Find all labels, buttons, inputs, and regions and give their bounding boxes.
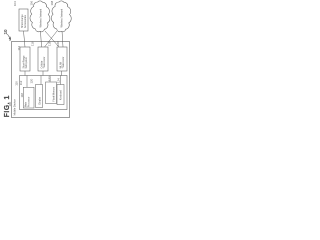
patent figure drawn in landscape coords (120x72), rotated 90deg CCW into portrait canvas xyxy=(3,0,71,117)
wire G to bus xyxy=(60,76,62,85)
svg-text:Wireless Network: Wireless Network xyxy=(40,8,43,27)
svg-text:104: 104 xyxy=(13,1,17,6)
component box F (memory) xyxy=(46,82,57,104)
svg-text:Wireless Network: Wireless Network xyxy=(61,8,64,27)
svg-text:108: 108 xyxy=(50,0,54,5)
svg-text:122: 122 xyxy=(48,76,52,81)
svg-text:118: 118 xyxy=(20,93,24,98)
inner module box xyxy=(20,76,68,110)
svg-text:10: 10 xyxy=(3,29,8,35)
svg-text:Flash Memory: Flash Memory xyxy=(52,86,55,101)
wire: cloud2 to IF3 xyxy=(62,31,63,47)
wire: small box to IF1 xyxy=(24,31,26,47)
svg-text:118: 118 xyxy=(48,41,52,46)
svg-text:120: 120 xyxy=(30,78,34,83)
svg-text:Accessories: Accessories xyxy=(24,14,27,28)
svg-text:Processor: Processor xyxy=(27,96,30,107)
wire IF2 to bus xyxy=(42,71,44,76)
svg-text:Main: Main xyxy=(26,101,28,107)
wire D to bus xyxy=(26,76,28,88)
wire F to bus xyxy=(49,76,51,83)
interface box IF2 xyxy=(38,47,48,71)
svg-text:Transceiver: Transceiver xyxy=(43,56,46,68)
cloud 2 xyxy=(51,1,71,32)
component box E (display) xyxy=(36,85,43,108)
small external box (other device) xyxy=(19,9,28,31)
wire: cloud1 to IF2 xyxy=(41,31,42,47)
component box G (input device) xyxy=(57,85,64,105)
svg-text:Display: Display xyxy=(39,96,41,104)
svg-text:124: 124 xyxy=(57,78,61,83)
svg-text:102: 102 xyxy=(8,36,12,41)
svg-text:120: 120 xyxy=(56,41,60,46)
svg-text:112: 112 xyxy=(19,80,23,85)
wire IF1 to bus xyxy=(24,71,26,76)
svg-text:Mobile Device: Mobile Device xyxy=(13,99,17,116)
svg-text:Transceiver: Transceiver xyxy=(62,56,65,68)
wire: cloud1 to IF3 (crossing) xyxy=(45,31,59,47)
svg-text:116: 116 xyxy=(31,41,35,46)
outer device box xyxy=(12,42,70,118)
svg-text:Cellular: Cellular xyxy=(40,60,43,68)
wire: cloud2 to IF2 (crossing) xyxy=(45,31,58,47)
interface box IF3 xyxy=(57,47,67,71)
svg-text:Subsystem: Subsystem xyxy=(25,57,28,68)
svg-text:WLAN: WLAN xyxy=(59,62,62,69)
wire E to bus xyxy=(40,76,42,85)
svg-text:114: 114 xyxy=(17,46,21,51)
svg-text:100: 100 xyxy=(8,101,12,106)
component box D (processor) xyxy=(23,87,34,108)
svg-text:106: 106 xyxy=(30,0,34,5)
svg-text:Short-Range: Short-Range xyxy=(22,55,25,69)
cloud 1 xyxy=(30,1,50,32)
wire IF3 to bus xyxy=(61,71,63,76)
svg-text:Keyboard: Keyboard xyxy=(59,89,62,100)
interface box IF1 xyxy=(20,47,30,71)
